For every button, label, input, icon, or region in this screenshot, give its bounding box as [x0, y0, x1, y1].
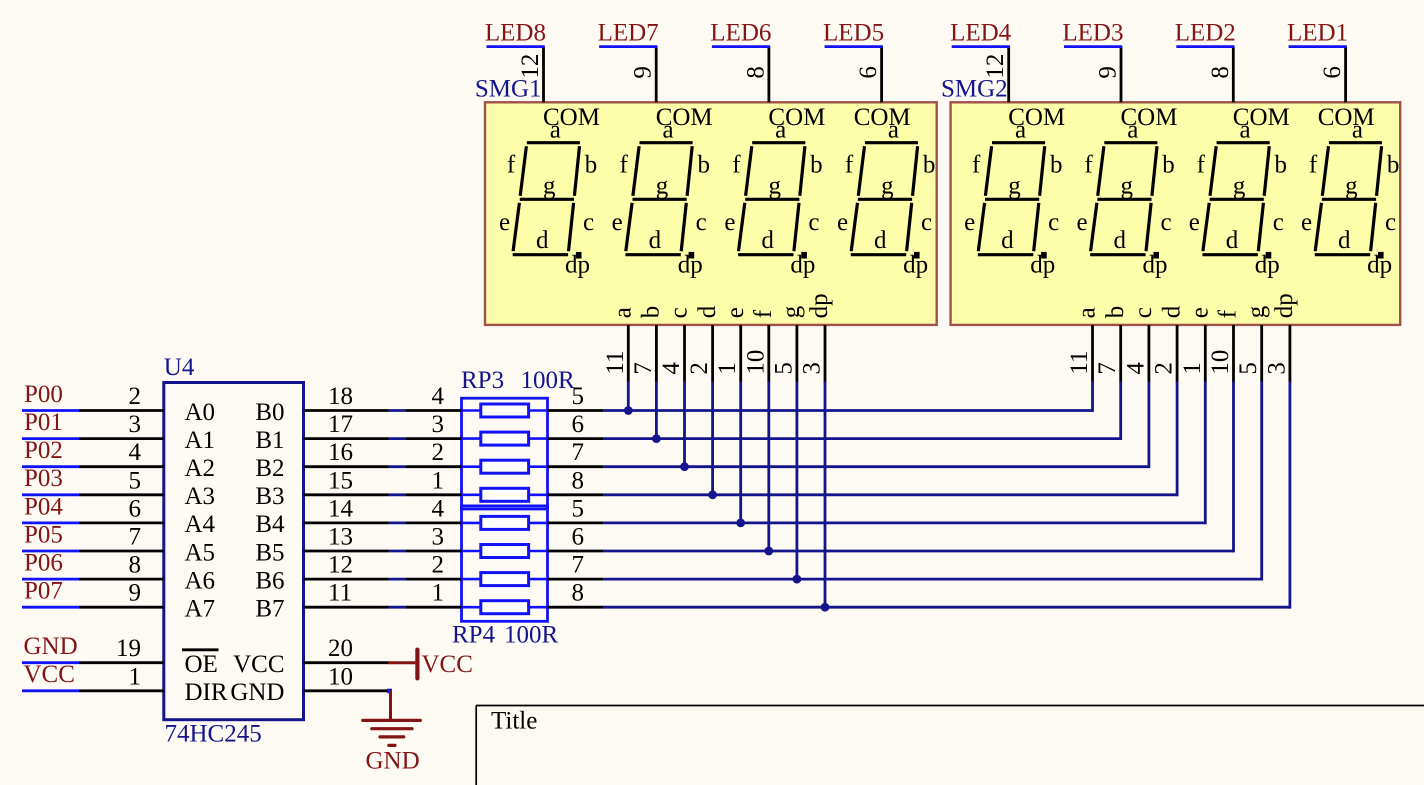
svg-text:f: f	[972, 151, 981, 178]
svg-text:d: d	[536, 227, 549, 254]
svg-text:dp: dp	[790, 251, 815, 278]
svg-text:b: b	[697, 152, 710, 179]
svg-text:A3: A3	[185, 483, 216, 510]
U4 pin 5 (A3)	[79, 467, 215, 510]
svg-text:d: d	[1338, 227, 1351, 254]
svg-text:g: g	[656, 173, 669, 200]
svg-text:GND: GND	[24, 633, 78, 660]
svg-text:VCC: VCC	[233, 651, 284, 678]
svg-text:7: 7	[1094, 362, 1121, 375]
RP3 resistor element, pins 4-5	[406, 383, 603, 417]
title block	[476, 706, 1424, 785]
svg-text:a: a	[1015, 116, 1026, 143]
U4 pin 20 (VCC)	[233, 635, 389, 678]
svg-text:P00: P00	[24, 381, 63, 408]
junction on net e at SMG1	[736, 519, 745, 528]
svg-text:GND: GND	[230, 679, 284, 706]
svg-text:d: d	[694, 305, 721, 318]
svg-text:A5: A5	[185, 539, 216, 566]
svg-text:b: b	[1387, 152, 1400, 179]
svg-text:LED3: LED3	[1062, 19, 1123, 46]
svg-text:b: b	[1162, 152, 1175, 179]
SMG1 segment pin f, pin number 10	[742, 309, 777, 382]
svg-text:a: a	[888, 116, 899, 143]
U4 pin 12 (B6)	[255, 552, 388, 595]
svg-text:g: g	[1345, 173, 1358, 200]
svg-text:8: 8	[572, 467, 585, 494]
svg-text:dp: dp	[903, 251, 928, 278]
svg-text:f: f	[1197, 151, 1206, 178]
svg-text:4: 4	[658, 362, 685, 375]
U4 pin 19 (OE, active low)	[79, 635, 219, 678]
svg-text:P06: P06	[24, 550, 63, 577]
svg-text:11: 11	[328, 580, 352, 607]
wire U4 B0 to RP	[389, 409, 407, 412]
svg-text:4: 4	[432, 495, 445, 522]
svg-text:c: c	[1130, 307, 1157, 318]
wire U4 B5 to RP	[389, 550, 407, 553]
svg-text:5: 5	[770, 362, 797, 375]
svg-text:6: 6	[129, 495, 142, 522]
svg-text:g: g	[1243, 305, 1270, 318]
svg-text:LED1: LED1	[1287, 19, 1348, 46]
svg-text:d: d	[649, 227, 662, 254]
svg-text:100R: 100R	[504, 622, 559, 649]
svg-text:c: c	[1385, 209, 1396, 236]
svg-text:19: 19	[116, 635, 141, 662]
svg-text:A4: A4	[185, 511, 216, 538]
RP4 resistor element, pins 2-7	[406, 552, 603, 586]
U4 pin 3 (A1)	[79, 411, 215, 454]
svg-text:B7: B7	[255, 596, 284, 623]
svg-text:1: 1	[129, 663, 142, 690]
svg-text:6: 6	[572, 411, 585, 438]
power symbol VCC	[388, 650, 473, 679]
svg-text:A6: A6	[185, 567, 216, 594]
svg-text:7: 7	[572, 439, 585, 466]
RP4 resistor element, pins 1-8	[406, 580, 603, 614]
svg-text:a: a	[550, 116, 561, 143]
ground symbol GND	[363, 691, 421, 775]
SMG2 digit 2 seven-segment glyph	[1076, 116, 1174, 278]
seven-segment display SMG1	[485, 102, 937, 325]
resistor pack RP4 body	[462, 506, 548, 621]
svg-text:15: 15	[328, 467, 353, 494]
svg-text:P01: P01	[24, 409, 63, 436]
svg-text:7: 7	[129, 524, 142, 551]
svg-text:a: a	[1352, 116, 1363, 143]
SMG2 digit 4 COM pin, pin number 6	[1318, 47, 1375, 132]
svg-text:e: e	[722, 307, 749, 318]
SMG1 segment pin dp, pin number 3	[799, 293, 834, 382]
SMG1 digit 1 COM pin, pin number 12	[517, 47, 600, 132]
IC U4 74HC245 body	[164, 383, 304, 720]
svg-text:g: g	[1008, 173, 1021, 200]
svg-text:e: e	[612, 209, 623, 236]
svg-text:13: 13	[328, 524, 353, 551]
U4 pin 18 (B0)	[255, 383, 388, 426]
net label GND (left)	[22, 633, 79, 663]
svg-text:B5: B5	[255, 539, 284, 566]
net label LED5	[823, 19, 884, 46]
SMG2 segment pin f, pin number 10	[1207, 309, 1242, 382]
svg-text:B0: B0	[255, 399, 284, 426]
svg-text:c: c	[1048, 209, 1059, 236]
svg-text:2: 2	[686, 362, 713, 375]
svg-text:6: 6	[572, 524, 585, 551]
svg-text:GND: GND	[366, 748, 420, 775]
U4 pin 11 (B7)	[255, 580, 388, 623]
svg-text:14: 14	[328, 495, 354, 522]
svg-text:1: 1	[714, 362, 741, 375]
svg-text:e: e	[1187, 307, 1214, 318]
svg-text:P04: P04	[24, 493, 63, 520]
svg-text:8: 8	[129, 552, 142, 579]
svg-text:e: e	[1189, 209, 1200, 236]
svg-text:a: a	[1127, 116, 1138, 143]
SMG2 segment pin e, pin number 1	[1179, 307, 1214, 382]
svg-text:dp: dp	[1271, 293, 1298, 318]
resistor pack RP3 body	[462, 398, 548, 509]
U4 pin 7 (A5)	[79, 524, 215, 567]
svg-text:100R: 100R	[521, 367, 576, 394]
net label P07	[22, 578, 79, 608]
svg-text:RP4: RP4	[452, 622, 496, 649]
svg-text:COM: COM	[854, 104, 911, 131]
svg-text:dp: dp	[806, 293, 833, 318]
net label LED2	[1175, 19, 1236, 46]
svg-text:P07: P07	[24, 578, 63, 605]
svg-text:B1: B1	[255, 427, 284, 454]
wire segment net a: RP to displays	[603, 381, 1093, 412]
svg-text:dp: dp	[1030, 251, 1055, 278]
svg-text:P05: P05	[24, 521, 63, 548]
svg-text:b: b	[1102, 306, 1129, 319]
wire segment net f: RP to displays	[603, 381, 1234, 552]
wire stub at U4 pin 10	[387, 689, 392, 694]
svg-text:2: 2	[432, 439, 445, 466]
svg-text:VCC: VCC	[24, 661, 75, 688]
svg-text:e: e	[1301, 209, 1312, 236]
svg-text:10: 10	[328, 663, 353, 690]
designator RP4	[452, 622, 496, 649]
svg-text:4: 4	[432, 383, 445, 410]
svg-text:1: 1	[432, 467, 445, 494]
svg-text:b: b	[1275, 152, 1288, 179]
SMG1 segment pin b, pin number 7	[630, 306, 665, 383]
svg-text:5: 5	[572, 383, 585, 410]
svg-text:b: b	[923, 152, 936, 179]
svg-text:e: e	[1076, 209, 1087, 236]
RP3 resistor element, pins 2-7	[406, 439, 603, 473]
svg-text:f: f	[1084, 151, 1093, 178]
wire U4 B3 to RP	[389, 493, 407, 496]
designator U4	[164, 354, 195, 381]
svg-text:3: 3	[1263, 362, 1290, 375]
svg-text:4: 4	[129, 439, 142, 466]
wire U4 B2 to RP	[389, 465, 407, 468]
U4 pin 6 (A4)	[79, 495, 216, 538]
net label P03	[22, 465, 79, 495]
svg-text:20: 20	[328, 635, 353, 662]
SMG2 digit 2 COM pin, pin number 9	[1095, 47, 1178, 132]
SMG2 segment pin dp, pin number 3	[1263, 293, 1298, 382]
net label LED3	[1062, 19, 1123, 46]
svg-text:17: 17	[328, 411, 353, 438]
wire segment net c: RP to displays	[603, 381, 1149, 468]
svg-text:Title: Title	[491, 707, 537, 734]
svg-text:1: 1	[1179, 362, 1206, 375]
U4 pin 1 (DIR)	[79, 663, 228, 706]
wire U4 B6 to RP	[389, 578, 407, 581]
svg-text:b: b	[585, 152, 598, 179]
svg-text:LED8: LED8	[485, 19, 546, 46]
svg-text:5: 5	[572, 495, 585, 522]
svg-text:P03: P03	[24, 465, 63, 492]
U4 pin 4 (A2)	[79, 439, 215, 482]
wire segment net dp: RP to displays	[603, 381, 1290, 608]
svg-text:A0: A0	[185, 399, 216, 426]
net label P01	[22, 409, 79, 439]
RP4 resistor element, pins 4-5	[406, 495, 603, 529]
svg-text:B4: B4	[255, 511, 285, 538]
svg-text:B3: B3	[255, 483, 284, 510]
svg-text:B6: B6	[255, 567, 284, 594]
SMG1 digit 1 seven-segment glyph	[499, 116, 597, 278]
svg-text:b: b	[810, 152, 823, 179]
net label P06	[22, 550, 79, 580]
svg-text:LED7: LED7	[598, 19, 659, 46]
svg-text:B2: B2	[255, 455, 284, 482]
net label P04	[22, 493, 79, 523]
U4 pin 10 (GND)	[230, 663, 389, 706]
svg-text:c: c	[921, 209, 932, 236]
svg-text:e: e	[964, 209, 975, 236]
designator SMG2	[941, 75, 1008, 102]
svg-text:7: 7	[630, 362, 657, 375]
wire U4 B1 to RP	[389, 437, 407, 440]
svg-text:LED6: LED6	[710, 19, 771, 46]
svg-text:g: g	[543, 173, 556, 200]
svg-text:c: c	[808, 209, 819, 236]
SMG1 digit 3 seven-segment glyph	[724, 116, 822, 278]
svg-text:7: 7	[572, 552, 585, 579]
svg-text:COM: COM	[1318, 104, 1375, 131]
svg-text:A1: A1	[185, 427, 216, 454]
svg-text:c: c	[1160, 209, 1171, 236]
svg-text:6: 6	[855, 66, 882, 79]
svg-text:g: g	[768, 173, 781, 200]
svg-text:1: 1	[432, 580, 445, 607]
svg-text:8: 8	[1207, 66, 1234, 79]
wire segment net e: RP to displays	[603, 381, 1205, 524]
svg-text:3: 3	[432, 411, 445, 438]
net label LED1	[1287, 19, 1348, 46]
svg-text:LED5: LED5	[823, 19, 884, 46]
value 74HC245	[165, 721, 262, 748]
svg-text:g: g	[1233, 173, 1246, 200]
net label VCC (left)	[22, 661, 79, 691]
svg-text:dp: dp	[1255, 251, 1280, 278]
junction on net g at SMG1	[793, 575, 802, 584]
svg-text:dp: dp	[565, 251, 590, 278]
svg-text:g: g	[881, 173, 894, 200]
SMG2 segment pin g, pin number 5	[1235, 305, 1270, 382]
svg-text:c: c	[666, 307, 693, 318]
svg-text:6: 6	[1319, 66, 1346, 79]
net label LED6	[710, 19, 771, 46]
SMG2 segment pin d, pin number 2	[1151, 305, 1186, 382]
net label P05	[22, 521, 79, 551]
svg-text:3: 3	[129, 411, 142, 438]
svg-text:RP3: RP3	[461, 367, 504, 394]
U4 pin 16 (B2)	[255, 439, 388, 482]
SMG1 digit 2 COM pin, pin number 9	[630, 47, 713, 132]
svg-text:OE: OE	[185, 651, 218, 678]
U4 pin 9 (A7)	[79, 580, 215, 623]
wire U4 B4 to RP	[389, 522, 407, 525]
svg-text:d: d	[761, 227, 774, 254]
svg-text:b: b	[1050, 152, 1063, 179]
net label LED4	[950, 19, 1012, 46]
svg-text:b: b	[638, 306, 665, 319]
SMG1 segment pin c, pin number 4	[658, 307, 693, 382]
svg-text:f: f	[507, 151, 516, 178]
SMG2 digit 3 seven-segment glyph	[1189, 116, 1287, 278]
svg-text:12: 12	[517, 54, 544, 79]
U4 pin 2 (A0)	[79, 383, 215, 426]
U4 pin 17 (B1)	[255, 411, 388, 454]
svg-text:dp: dp	[1143, 251, 1168, 278]
svg-text:11: 11	[602, 351, 629, 375]
svg-text:P02: P02	[24, 437, 63, 464]
svg-text:9: 9	[630, 66, 657, 79]
svg-text:4: 4	[1122, 362, 1149, 375]
junction on net a at SMG1	[624, 406, 633, 415]
SMG1 digit 2 seven-segment glyph	[612, 116, 710, 278]
RP4 resistor element, pins 3-6	[406, 524, 603, 558]
value 100R (RP3)	[521, 367, 576, 394]
svg-text:12: 12	[328, 552, 353, 579]
svg-text:LED2: LED2	[1175, 19, 1236, 46]
svg-text:A2: A2	[185, 455, 216, 482]
SMG2 segment pin b, pin number 7	[1094, 306, 1129, 383]
SMG2 segment pin c, pin number 4	[1122, 307, 1157, 382]
svg-text:16: 16	[328, 439, 353, 466]
designator RP3	[461, 367, 504, 394]
svg-text:11: 11	[1066, 351, 1093, 375]
net label LED8	[485, 19, 546, 46]
svg-text:A7: A7	[185, 596, 216, 623]
SMG2 segment pin a, pin number 11	[1066, 307, 1101, 382]
svg-text:5: 5	[129, 467, 142, 494]
SMG1 segment pin a, pin number 11	[602, 307, 637, 382]
svg-text:e: e	[499, 209, 510, 236]
junction on net c at SMG1	[680, 462, 689, 471]
svg-text:e: e	[724, 209, 735, 236]
svg-text:3: 3	[432, 524, 445, 551]
svg-text:5: 5	[1235, 362, 1262, 375]
svg-text:dp: dp	[678, 251, 703, 278]
junction on net d at SMG1	[708, 490, 717, 499]
svg-text:f: f	[750, 309, 777, 318]
svg-text:8: 8	[572, 580, 585, 607]
svg-text:f: f	[845, 151, 854, 178]
wire segment net b: RP to displays	[603, 381, 1121, 440]
svg-text:2: 2	[129, 383, 142, 410]
net label P02	[22, 437, 79, 467]
SMG2 digit 1 seven-segment glyph	[964, 116, 1062, 278]
svg-text:DIR: DIR	[185, 679, 228, 706]
U4 pin 8 (A6)	[79, 552, 215, 595]
svg-text:10: 10	[742, 350, 769, 375]
svg-text:LED4: LED4	[950, 19, 1012, 46]
svg-text:a: a	[662, 116, 673, 143]
svg-text:f: f	[620, 151, 629, 178]
svg-text:e: e	[837, 209, 848, 236]
SMG1 segment pin d, pin number 2	[686, 305, 721, 382]
SMG1 digit 3 COM pin, pin number 8	[742, 47, 825, 132]
svg-text:8: 8	[742, 66, 769, 79]
svg-text:2: 2	[432, 552, 445, 579]
svg-text:d: d	[1158, 305, 1185, 318]
svg-text:9: 9	[1095, 66, 1122, 79]
U4 pin 15 (B3)	[255, 467, 388, 510]
junction on net b at SMG1	[652, 434, 661, 443]
svg-text:74HC245: 74HC245	[165, 721, 262, 748]
svg-text:f: f	[1215, 309, 1242, 318]
svg-text:a: a	[610, 307, 637, 318]
svg-text:VCC: VCC	[422, 651, 473, 678]
U4 pin 13 (B5)	[255, 524, 388, 567]
SMG2 digit 4 seven-segment glyph	[1301, 116, 1399, 278]
U4 pin 14 (B4)	[255, 495, 388, 538]
svg-text:f: f	[1309, 151, 1318, 178]
svg-text:c: c	[696, 209, 707, 236]
RP3 resistor element, pins 1-8	[406, 467, 603, 501]
seven-segment display SMG2	[951, 102, 1401, 325]
svg-text:c: c	[583, 209, 594, 236]
designator SMG1	[475, 75, 542, 102]
svg-text:2: 2	[1151, 362, 1178, 375]
svg-text:12: 12	[982, 54, 1009, 79]
svg-text:g: g	[778, 305, 805, 318]
svg-text:g: g	[1121, 173, 1134, 200]
net label P00	[22, 381, 79, 411]
svg-text:f: f	[732, 151, 741, 178]
svg-text:10: 10	[1207, 350, 1234, 375]
SMG1 segment pin g, pin number 5	[770, 305, 805, 382]
net label LED7	[598, 19, 659, 46]
SMG1 digit 4 seven-segment glyph	[837, 116, 935, 278]
svg-text:18: 18	[328, 383, 353, 410]
junction on net dp at SMG1	[821, 603, 830, 612]
wire segment net d: RP to displays	[603, 381, 1177, 496]
SMG1 segment pin e, pin number 1	[714, 307, 749, 382]
svg-text:dp: dp	[1367, 251, 1392, 278]
wire U4 B7 to RP	[389, 606, 407, 609]
svg-text:d: d	[1001, 227, 1014, 254]
svg-text:d: d	[874, 227, 887, 254]
svg-text:a: a	[775, 116, 786, 143]
junction on net f at SMG1	[764, 547, 773, 556]
wire segment net g: RP to displays	[603, 381, 1262, 580]
SMG2 digit 1 COM pin, pin number 12	[982, 47, 1065, 132]
svg-text:a: a	[1240, 116, 1251, 143]
SMG1 digit 4 COM pin, pin number 6	[854, 47, 911, 132]
svg-text:a: a	[1074, 307, 1101, 318]
RP3 resistor element, pins 3-6	[406, 411, 603, 445]
